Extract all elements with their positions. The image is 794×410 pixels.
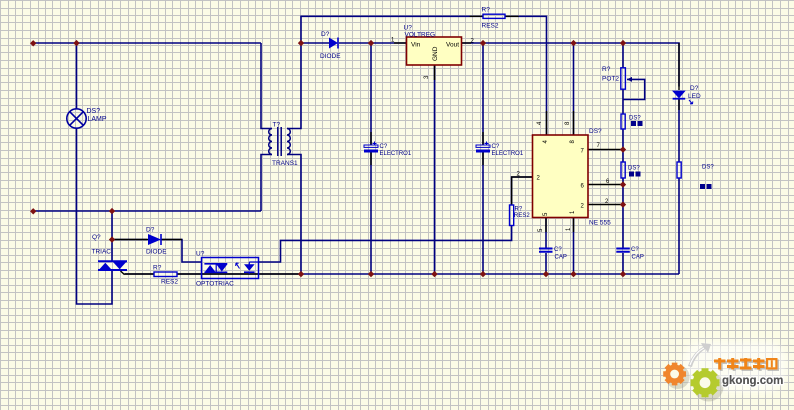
svg-text:R?: R? [153,265,162,272]
svg-text:LAMP: LAMP [88,116,107,123]
wire vout to right [462,43,680,87]
svg-text:DS?: DS? [702,165,714,171]
diode D? DIODE (bottom) [148,234,161,245]
orange gear [663,363,686,386]
svg-text:GND: GND [432,46,439,61]
svg-text:DS?: DS? [629,116,641,122]
capacitor C? CAP (left) [539,249,553,252]
logo gkong watermark [663,342,787,402]
wire res to 555 pin2 [512,177,533,205]
svg-text:C?: C? [631,247,639,253]
wire 555 pin8 column [573,43,575,135]
svg-text:D?: D? [146,227,155,234]
svg-text:DS?: DS? [589,128,602,135]
svg-text:C?: C? [492,144,500,150]
wire res1 to 555 right pins column [622,129,624,274]
wire primary top lead [261,43,272,129]
wire pot to res1 [622,89,624,114]
node left end top [30,40,36,46]
green gear shadow [694,372,724,402]
node cap1 bus [368,271,374,277]
svg-text:RES2: RES2 [161,279,178,286]
wire top main left segment [33,42,261,44]
wire secondary top lead [287,43,301,129]
svg-text:D?: D? [321,31,330,38]
chinese title 中华工控网 [716,360,780,372]
pin stub cap2 [482,132,484,165]
svg-text:R?: R? [482,7,491,14]
svg-text:R?: R? [515,207,523,213]
svg-text:D?: D? [690,85,699,92]
svg-text:VOLTREG: VOLTREG [405,32,436,39]
node gnd bus [431,271,437,277]
svg-text:R?: R? [602,66,611,73]
wire lamp column top [76,43,78,109]
wire pot wiper loop [623,79,645,99]
svg-text:TRANS1: TRANS1 [272,160,298,167]
lamp DS? [67,109,86,128]
resistor R? RES2 (gate) [154,272,177,277]
svg-text:DIODE: DIODE [320,53,341,60]
svg-text:U?: U? [196,251,205,258]
wire triac top column [111,211,113,262]
node secondary top [298,40,304,46]
wire top resistor right to 555 pin4 [505,16,547,135]
svg-text:DIODE: DIODE [146,249,167,256]
wire second horizontal (AC return) [33,210,261,212]
svg-text:TRIAC: TRIAC [92,249,112,256]
wire pot column top [622,43,624,68]
wire LED to resistor to bus [678,99,680,274]
wire top diode segment [301,42,407,44]
svg-text:OPTOTRIAC: OPTOTRIAC [196,281,234,288]
pin stub diode2 [112,239,182,241]
node triac column [109,208,115,214]
node pin6 [620,181,626,187]
pin stub voltreg vin [394,42,407,44]
pin stub led column [678,43,680,110]
resistor DS? (right) [677,162,681,178]
orange gear shadow [666,365,690,389]
pin stub voltreg vout [462,42,472,44]
IC NE555 [533,135,589,218]
potentiometer R? POT2 [621,68,632,89]
node pin1 bus [570,271,576,277]
transformer T? TRANS1 [269,127,291,156]
node lamp top [73,40,79,46]
JUNCTIONS (red) [30,40,626,277]
LED D? [672,91,693,104]
wire secondary bottom lead [287,155,301,275]
node cap2 top [480,40,486,46]
svg-text:gkong.com: gkong.com [722,375,783,387]
svg-text:Vin: Vin [411,42,421,49]
node left end bottom [30,208,36,214]
wire opto right feedback [258,226,512,263]
pin stub 555 pin7 [588,149,621,151]
svg-text:DS?: DS? [628,166,640,172]
resistor DS? (mid) [621,162,625,178]
capacitor C? CAP (right) [616,249,630,252]
triac Q? TRIAC [98,261,127,274]
resistor DS? (below pot) [621,114,625,129]
svg-text:ELECTRO1: ELECTRO1 [492,151,524,157]
svg-text:DS?: DS? [87,108,101,115]
svg-text:NE 555: NE 555 [589,220,611,227]
pin stub 555 pin2r [588,204,621,206]
node diode branch [109,236,115,242]
capacitor C? ELECTRO1 (left) [364,142,378,153]
wire secondary to top resistor [301,16,483,43]
svg-text:C?: C? [380,144,388,150]
pin stub bus near opto [125,273,303,275]
svg-text:Q?: Q? [92,234,101,241]
wire 555 bottom pin5 to cap [545,218,547,275]
svg-text:CAP: CAP [632,255,644,261]
PIN STUBS (black) [112,16,679,274]
svg-text:C?: C? [554,247,562,253]
pin stubs 555 bottom [546,218,574,233]
svg-text:POT2: POT2 [602,76,619,83]
voltage regulator U? VOLTREG [407,37,462,65]
svg-text:ELECTRO1: ELECTRO1 [380,151,412,157]
wire cap2 column [482,43,484,274]
node cap2 bus [480,271,486,277]
wire diode cathode to opto pin [162,240,202,263]
pin stub voltreg gnd [434,65,436,80]
node cap3 bus [543,271,549,277]
pin stub 555 pin2 left [512,177,533,205]
node secondary bottom bus [298,271,304,277]
green gear [691,368,720,397]
pin stub 555 pin6 [588,184,621,186]
pin stub top resistor [470,15,519,17]
resistor R? RES2 (top) [483,14,505,18]
node cap1 top [368,40,374,46]
pin stub cap1 [370,132,372,165]
node pin2r [620,201,626,207]
diode D? (top) [329,38,338,49]
optocoupler U? OPTOTRIAC [202,258,259,279]
resistor R? RES2 (555 pin2) [510,205,514,226]
node pot top [620,40,626,46]
wire primary bottom lead [261,155,272,212]
wire bottom bus [125,273,680,275]
wire diode branch to optocoupler [112,239,147,241]
svg-text:RES2: RES2 [482,23,499,30]
wire lamp column bottom loop [77,128,113,304]
svg-text:Vout: Vout [446,42,459,49]
node pin7 [620,146,626,152]
node cap4 bus [620,271,626,277]
svg-text:LED: LED [688,93,701,100]
wire cap1 column [370,43,372,274]
capacitor C? ELECTRO1 (right) [476,142,490,153]
pin stubs 555 top [547,111,574,135]
svg-text:CAP: CAP [555,255,567,261]
svg-text:U?: U? [404,25,413,32]
gray arrow [688,343,711,367]
svg-text:T?: T? [273,122,281,129]
node pin8 top [570,40,576,46]
wire voltreg gnd column [434,65,436,274]
svg-text:RES2: RES2 [514,213,530,219]
wire 555 bottom pin1 to bus [573,218,575,275]
